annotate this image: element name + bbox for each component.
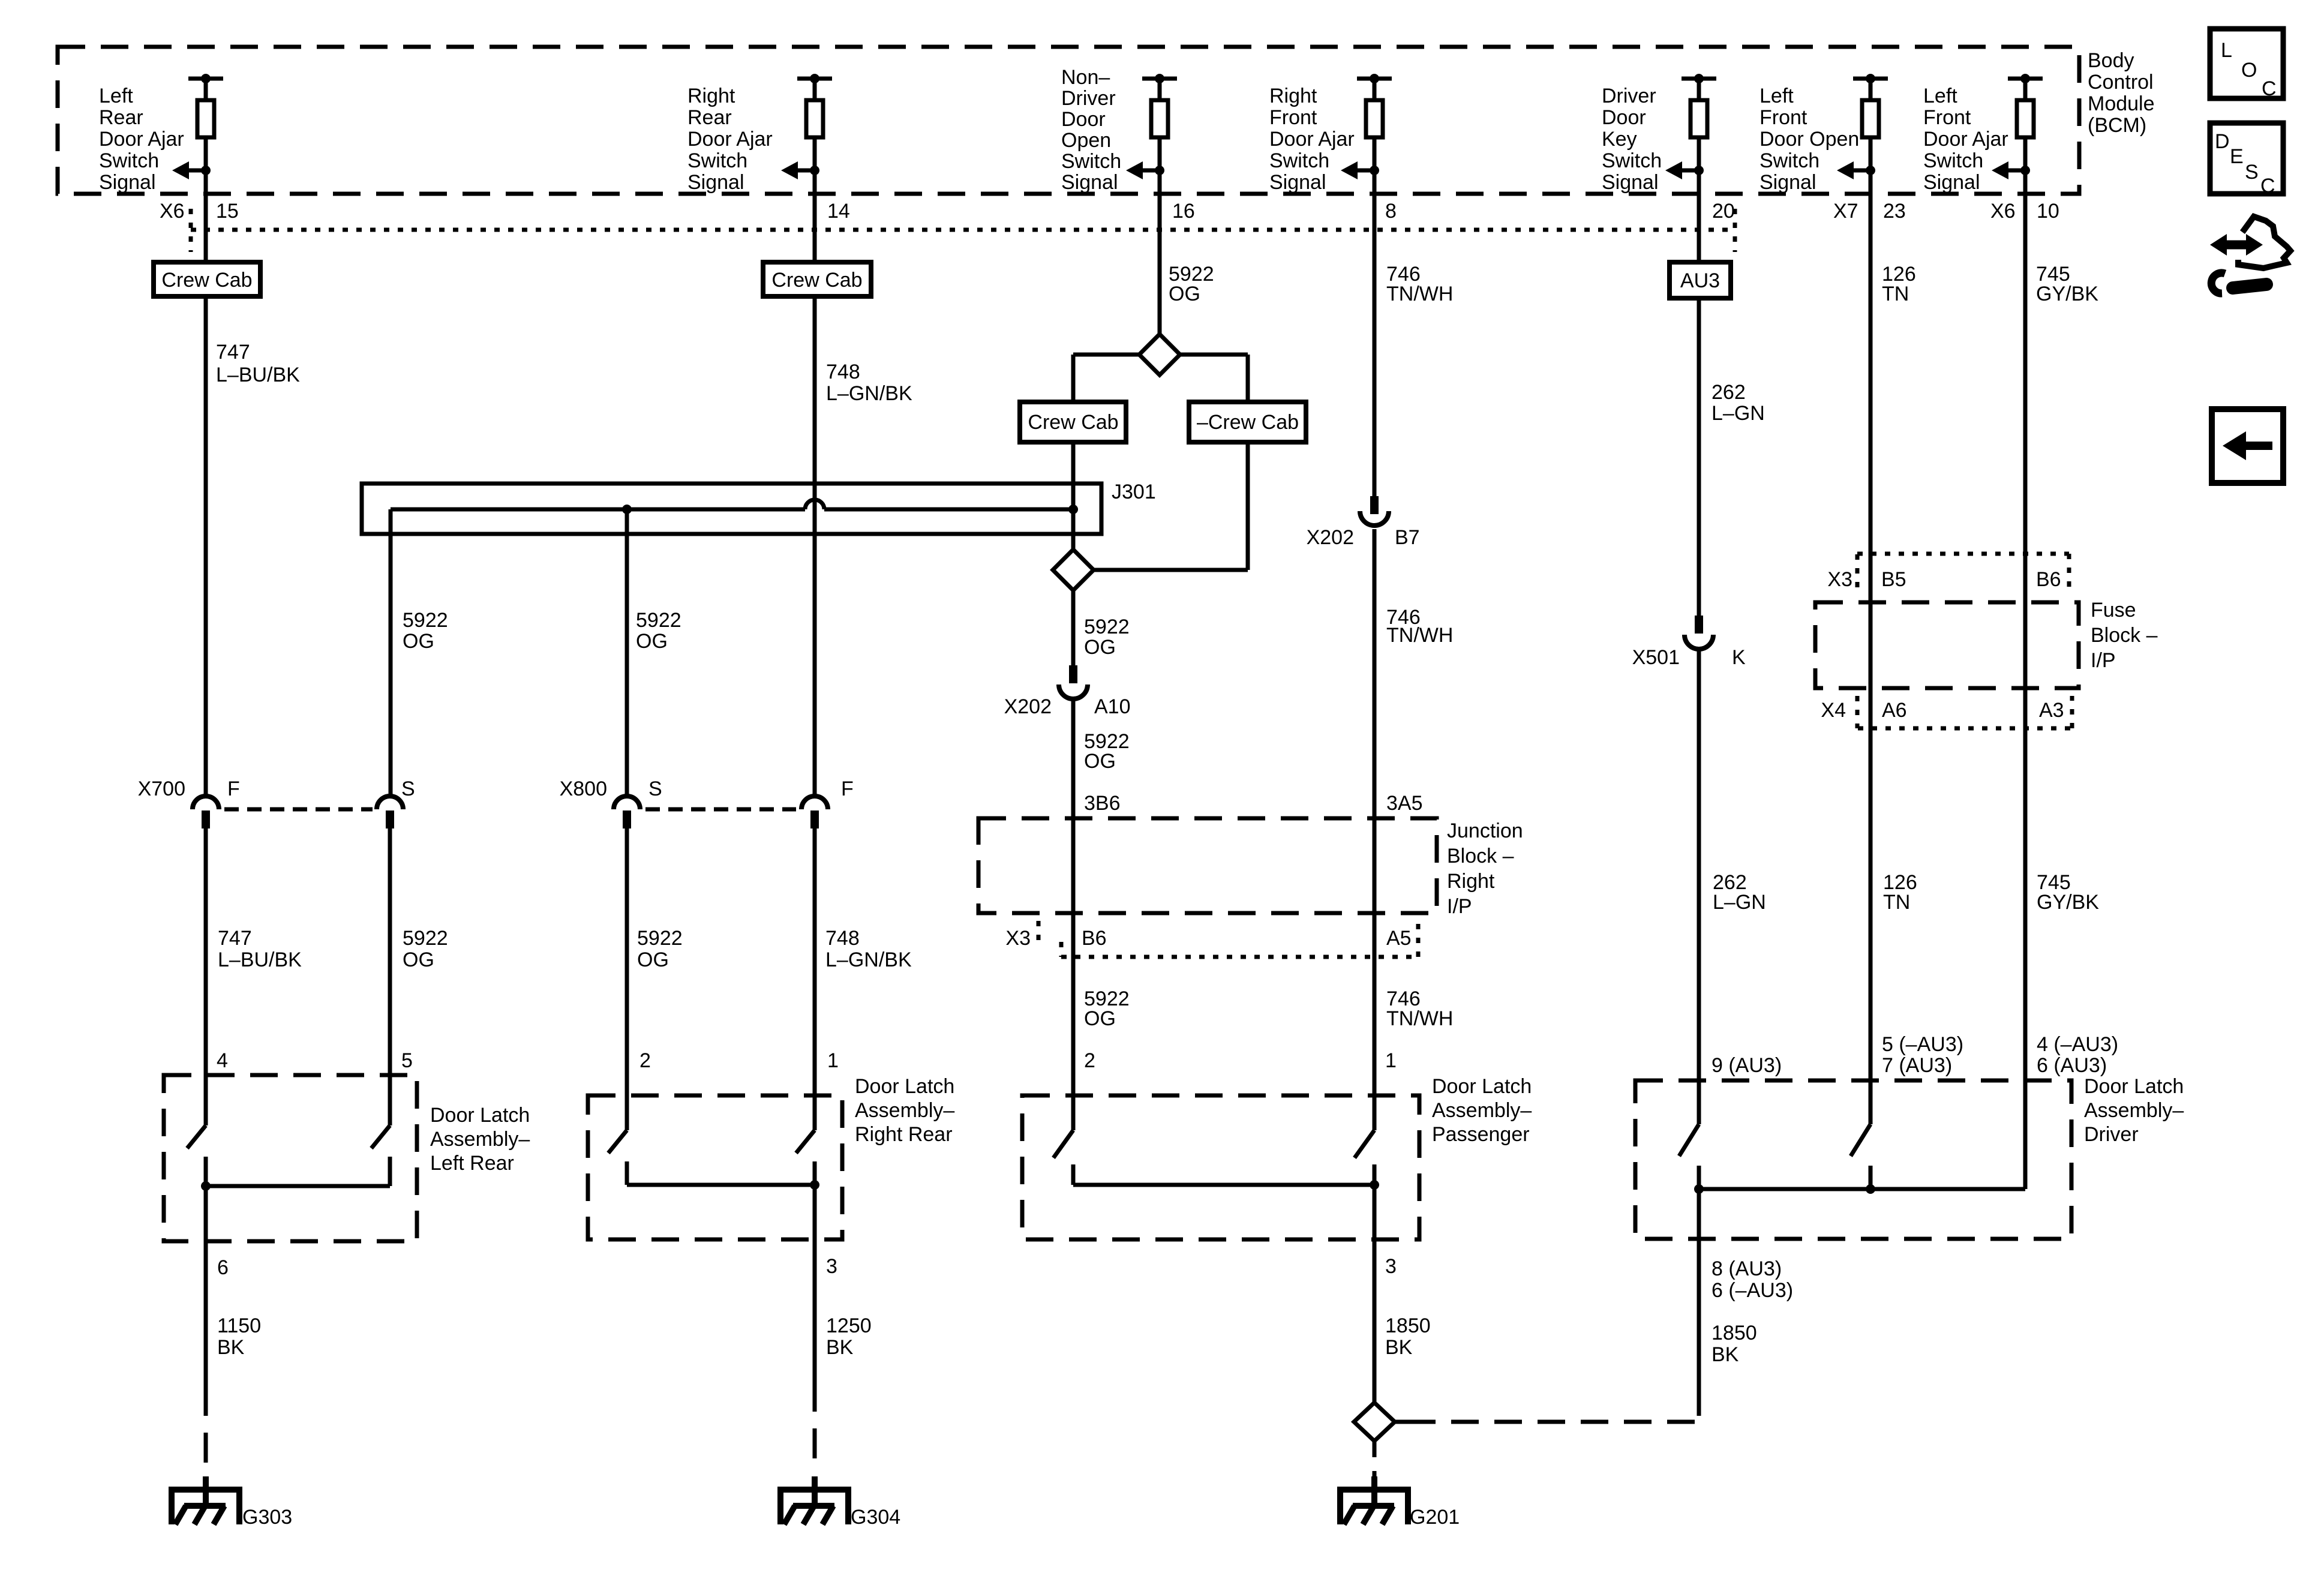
svg-text:6 (AU3): 6 (AU3) <box>2037 1054 2107 1077</box>
svg-text:OG: OG <box>637 948 669 971</box>
svg-text:Switch: Switch <box>1759 149 1819 172</box>
svg-text:S: S <box>2245 161 2259 184</box>
svg-text:O: O <box>2241 59 2257 82</box>
svg-text:6: 6 <box>217 1256 229 1279</box>
svg-text:Switch: Switch <box>1269 149 1329 172</box>
svg-text:Switch: Switch <box>1602 149 1662 172</box>
svg-text:B7: B7 <box>1395 526 1420 549</box>
svg-text:OG: OG <box>403 630 434 653</box>
svg-text:A10: A10 <box>1094 695 1131 718</box>
svg-text:Door Latch: Door Latch <box>855 1075 954 1098</box>
svg-text:Assembly–: Assembly– <box>430 1128 530 1151</box>
svg-text:4: 4 <box>217 1049 228 1072</box>
svg-text:Assembly–: Assembly– <box>2084 1099 2184 1122</box>
svg-text:1: 1 <box>827 1049 839 1072</box>
svg-text:1850: 1850 <box>1712 1322 1757 1344</box>
svg-text:–Crew Cab: –Crew Cab <box>1197 411 1299 434</box>
svg-text:C: C <box>2260 175 2275 197</box>
svg-text:747: 747 <box>216 341 250 364</box>
svg-text:X501: X501 <box>1632 646 1680 669</box>
svg-text:10: 10 <box>2037 200 2059 223</box>
svg-text:Signal: Signal <box>99 171 156 194</box>
svg-text:Door Latch: Door Latch <box>430 1104 530 1127</box>
svg-text:Signal: Signal <box>687 171 744 194</box>
svg-text:TN/WH: TN/WH <box>1386 1007 1453 1030</box>
svg-text:Crew Cab: Crew Cab <box>161 269 252 292</box>
svg-text:GY/BK: GY/BK <box>2037 891 2099 914</box>
svg-text:OG: OG <box>403 948 434 971</box>
svg-text:E: E <box>2230 145 2244 168</box>
svg-text:G304: G304 <box>851 1506 900 1529</box>
svg-text:Driver: Driver <box>1602 85 1656 107</box>
svg-text:3B6: 3B6 <box>1084 792 1121 815</box>
svg-text:6 (–AU3): 6 (–AU3) <box>1712 1279 1793 1302</box>
svg-text:OG: OG <box>636 630 668 653</box>
svg-text:S: S <box>648 778 662 800</box>
svg-text:3A5: 3A5 <box>1386 792 1423 815</box>
svg-text:5922: 5922 <box>636 609 681 632</box>
svg-text:G303: G303 <box>242 1506 292 1529</box>
svg-text:Open: Open <box>1061 129 1111 152</box>
svg-text:Right Rear: Right Rear <box>855 1123 953 1146</box>
svg-text:Signal: Signal <box>1923 171 1980 194</box>
svg-text:BK: BK <box>1385 1336 1413 1359</box>
svg-text:X202: X202 <box>1307 526 1354 549</box>
svg-text:Body: Body <box>2088 49 2134 72</box>
svg-text:J301: J301 <box>1112 481 1156 503</box>
svg-text:Signal: Signal <box>1269 171 1326 194</box>
svg-text:748: 748 <box>825 927 860 950</box>
svg-text:Switch: Switch <box>1061 150 1121 173</box>
svg-text:4 (–AU3): 4 (–AU3) <box>2037 1033 2118 1056</box>
svg-text:TN/WH: TN/WH <box>1386 283 1453 305</box>
svg-text:L–GN/BK: L–GN/BK <box>825 948 912 971</box>
svg-text:9 (AU3): 9 (AU3) <box>1712 1054 1782 1077</box>
svg-text:BK: BK <box>826 1336 854 1359</box>
svg-text:3: 3 <box>1385 1255 1397 1278</box>
svg-text:OG: OG <box>1084 636 1116 659</box>
svg-text:5922: 5922 <box>403 609 448 632</box>
svg-text:Assembly–: Assembly– <box>855 1099 954 1122</box>
svg-text:X700: X700 <box>138 778 185 800</box>
svg-text:X4: X4 <box>1821 699 1846 722</box>
svg-text:7 (AU3): 7 (AU3) <box>1882 1054 1952 1077</box>
svg-text:BK: BK <box>1712 1343 1739 1366</box>
svg-text:1850: 1850 <box>1385 1314 1431 1337</box>
svg-text:Crew Cab: Crew Cab <box>1028 411 1118 434</box>
svg-text:A6: A6 <box>1882 699 1907 722</box>
svg-text:Front: Front <box>1269 106 1317 129</box>
svg-text:Switch: Switch <box>1923 149 1983 172</box>
svg-text:X6: X6 <box>1990 200 2016 223</box>
svg-text:Left Rear: Left Rear <box>430 1152 514 1175</box>
svg-text:L: L <box>2221 39 2232 62</box>
svg-text:Rear: Rear <box>687 106 732 129</box>
svg-text:Door Ajar: Door Ajar <box>687 128 773 151</box>
svg-text:L–BU/BK: L–BU/BK <box>218 948 302 971</box>
svg-text:OG: OG <box>1084 1007 1116 1030</box>
svg-text:1150: 1150 <box>217 1314 261 1337</box>
svg-text:OG: OG <box>1169 283 1200 305</box>
svg-text:5922: 5922 <box>1084 616 1130 638</box>
svg-text:TN: TN <box>1883 891 1910 914</box>
svg-text:K: K <box>1732 646 1746 669</box>
svg-text:16: 16 <box>1172 200 1195 223</box>
svg-text:GY/BK: GY/BK <box>2036 283 2098 305</box>
svg-text:8: 8 <box>1385 200 1397 223</box>
svg-text:Door Ajar: Door Ajar <box>99 128 184 151</box>
svg-text:A3: A3 <box>2039 699 2064 722</box>
svg-text:S: S <box>401 778 415 800</box>
svg-text:F: F <box>841 778 854 800</box>
svg-text:Signal: Signal <box>1602 171 1659 194</box>
svg-text:2: 2 <box>1084 1049 1095 1072</box>
svg-text:BK: BK <box>217 1336 245 1359</box>
svg-text:5 (–AU3): 5 (–AU3) <box>1882 1033 1963 1056</box>
svg-text:Block –: Block – <box>1447 845 1514 867</box>
svg-text:747: 747 <box>218 927 252 950</box>
svg-text:5922: 5922 <box>403 927 448 950</box>
svg-text:X800: X800 <box>560 778 607 800</box>
svg-text:Door Open: Door Open <box>1759 128 1859 151</box>
svg-text:Crew Cab: Crew Cab <box>771 269 862 292</box>
svg-text:X202: X202 <box>1004 695 1052 718</box>
svg-text:Module: Module <box>2088 92 2155 115</box>
svg-text:X3: X3 <box>1005 927 1031 950</box>
svg-text:Junction: Junction <box>1447 819 1523 842</box>
svg-text:Left: Left <box>1923 85 1957 107</box>
svg-text:Driver: Driver <box>1061 87 1116 110</box>
svg-text:G201: G201 <box>1410 1506 1460 1529</box>
svg-text:X6: X6 <box>160 200 185 223</box>
svg-text:I/P: I/P <box>1447 895 1472 918</box>
svg-text:Switch: Switch <box>99 149 159 172</box>
svg-text:D: D <box>2215 130 2230 153</box>
svg-text:Assembly–: Assembly– <box>1432 1099 1532 1122</box>
svg-text:B6: B6 <box>1082 927 1107 950</box>
svg-text:(BCM): (BCM) <box>2088 114 2146 137</box>
svg-text:Right: Right <box>1269 85 1317 107</box>
svg-text:X7: X7 <box>1833 200 1858 223</box>
svg-text:Signal: Signal <box>1759 171 1816 194</box>
svg-text:I/P: I/P <box>2091 649 2116 672</box>
svg-text:Passenger: Passenger <box>1432 1123 1530 1146</box>
svg-text:Fuse: Fuse <box>2091 599 2136 622</box>
svg-text:Door: Door <box>1602 106 1646 129</box>
svg-text:2: 2 <box>639 1049 651 1072</box>
svg-text:Right: Right <box>687 85 735 107</box>
svg-text:L–GN: L–GN <box>1713 891 1766 914</box>
svg-text:Signal: Signal <box>1061 171 1118 194</box>
svg-text:23: 23 <box>1883 200 1906 223</box>
svg-text:TN/WH: TN/WH <box>1386 624 1453 647</box>
svg-text:L–GN/BK: L–GN/BK <box>826 382 912 405</box>
svg-text:L–GN: L–GN <box>1712 402 1765 425</box>
svg-text:Rear: Rear <box>99 106 143 129</box>
svg-text:748: 748 <box>826 361 860 383</box>
svg-text:15: 15 <box>216 200 239 223</box>
svg-text:B5: B5 <box>1881 568 1906 591</box>
svg-text:Right: Right <box>1447 870 1495 893</box>
svg-text:1: 1 <box>1385 1049 1397 1072</box>
svg-text:5: 5 <box>401 1049 413 1072</box>
svg-text:OG: OG <box>1084 750 1116 773</box>
svg-text:Key: Key <box>1602 128 1637 151</box>
svg-text:20: 20 <box>1712 200 1735 223</box>
svg-text:Left: Left <box>1759 85 1794 107</box>
svg-text:3: 3 <box>826 1255 837 1278</box>
svg-text:X3: X3 <box>1827 568 1852 591</box>
svg-text:Door Ajar: Door Ajar <box>1923 128 2008 151</box>
svg-text:Left: Left <box>99 85 133 107</box>
svg-text:14: 14 <box>827 200 850 223</box>
svg-text:Door Ajar: Door Ajar <box>1269 128 1355 151</box>
svg-text:8 (AU3): 8 (AU3) <box>1712 1257 1782 1280</box>
svg-text:Driver: Driver <box>2084 1123 2139 1146</box>
svg-text:Door Latch: Door Latch <box>2084 1075 2184 1098</box>
svg-text:Control: Control <box>2088 71 2154 94</box>
svg-text:A5: A5 <box>1386 927 1412 950</box>
svg-text:Front: Front <box>1923 106 1971 129</box>
svg-text:B6: B6 <box>2036 568 2061 591</box>
svg-text:1250: 1250 <box>826 1314 872 1337</box>
svg-text:L–BU/BK: L–BU/BK <box>216 364 300 386</box>
svg-text:Non–: Non– <box>1061 66 1110 89</box>
svg-text:Switch: Switch <box>687 149 747 172</box>
svg-text:AU3: AU3 <box>1680 269 1720 292</box>
svg-text:F: F <box>227 778 240 800</box>
svg-text:TN: TN <box>1882 283 1909 305</box>
svg-text:Door Latch: Door Latch <box>1432 1075 1532 1098</box>
svg-text:C: C <box>2262 77 2277 100</box>
svg-text:Front: Front <box>1759 106 1807 129</box>
svg-text:Block –: Block – <box>2091 624 2158 647</box>
svg-text:Door: Door <box>1061 108 1106 131</box>
svg-text:262: 262 <box>1712 381 1746 404</box>
svg-text:5922: 5922 <box>637 927 683 950</box>
